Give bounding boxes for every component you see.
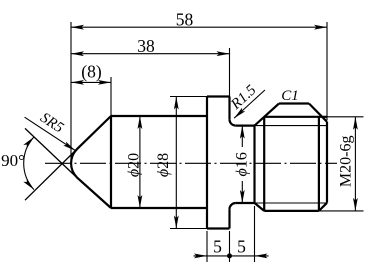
extension line left (tip tangent) <box>70 22 72 162</box>
dimension line phi16 upper <box>241 126 243 147</box>
arrow 58 left <box>71 25 84 30</box>
svg-text:5: 5 <box>237 237 246 257</box>
dimension line phi16 lower <box>241 181 243 203</box>
arrow 38 left <box>71 51 84 56</box>
svg-text:5: 5 <box>213 237 222 257</box>
cone edge lower (outline) <box>77 177 111 208</box>
arrow phi28 down <box>174 216 179 229</box>
cylinder phi20 top edge <box>111 115 207 117</box>
arrow SR5 <box>63 142 75 151</box>
cone edge upper construction line <box>25 148 79 201</box>
svg-text:ϕ20: ϕ20 <box>126 153 143 177</box>
extension line phi28 bottom <box>170 228 207 230</box>
arrow phi20 down <box>138 195 143 208</box>
arrow R1.5 <box>234 108 245 119</box>
flange phi28 top edge <box>207 95 230 97</box>
dimension line 38 <box>71 53 230 55</box>
svg-text:ϕ28: ϕ28 <box>155 153 172 177</box>
angle arc 90 <box>24 137 34 190</box>
leader line SR5 <box>25 117 76 150</box>
thread chamfer diagonal top-left <box>255 104 280 126</box>
arrow angle lower <box>23 178 34 189</box>
thread chamfer start line (right) <box>318 117 320 211</box>
svg-text:M20-6g: M20-6g <box>338 136 355 188</box>
arrow (8) left <box>71 80 84 85</box>
flange phi28 left face <box>206 97 208 229</box>
arrow phi20 up <box>138 116 143 129</box>
flange phi28 right face lower <box>228 209 230 228</box>
neck phi16 bottom edge <box>236 202 255 204</box>
thread major bottom line <box>264 210 319 212</box>
thread minor top line <box>255 125 328 127</box>
arrow phi16 down <box>240 190 245 203</box>
arrow phi16 up <box>240 126 245 139</box>
extension line right (58) <box>326 22 328 120</box>
spherical tip arc SR5 <box>71 149 77 177</box>
dimension line (8) <box>71 81 111 83</box>
thread chamfer diagonal bottom-left <box>255 203 265 211</box>
fillet R1.5 bottom <box>230 203 236 209</box>
dimension line 5-5 <box>194 255 269 257</box>
arrow angle upper <box>23 137 34 148</box>
arrow M20 down <box>353 198 358 211</box>
dot junction 5-5 <box>227 253 232 258</box>
wire centerline (axis) <box>45 162 337 164</box>
thread chamfer diagonal top-right <box>309 104 327 122</box>
arrow M20 up <box>353 117 358 130</box>
thread end line (left) <box>263 117 265 211</box>
cone edge upper (outline) <box>77 116 111 149</box>
thread right end face <box>326 122 328 203</box>
extension line M20 bottom <box>319 210 364 212</box>
extension line 5 right <box>254 206 256 262</box>
dimension line 58 <box>71 26 327 28</box>
svg-text:90°: 90° <box>1 151 25 170</box>
flange phi28 bottom edge <box>207 227 230 229</box>
svg-text:C1: C1 <box>281 88 299 104</box>
svg-text:58: 58 <box>176 9 194 29</box>
dimension line phi28 <box>175 97 177 229</box>
arrow 58 right <box>314 25 327 30</box>
flange phi28 right face upper <box>228 97 230 120</box>
neck right face <box>253 126 255 203</box>
leader line R1.5 <box>234 90 265 118</box>
svg-text:38: 38 <box>137 36 155 56</box>
cone base line <box>110 116 112 208</box>
extension line right (8) <box>110 77 112 116</box>
thread chamfer top flat <box>279 102 309 104</box>
dimension line M20-6g <box>354 117 356 211</box>
svg-text:(8): (8) <box>81 62 102 82</box>
arrow 5 left (outside) <box>194 254 207 259</box>
extension line phi28 top <box>170 96 207 98</box>
cylinder phi20 bottom edge <box>111 207 207 209</box>
extension line right (38) <box>229 48 231 97</box>
fillet R1.5 top <box>230 120 236 126</box>
arrow (8) right <box>98 80 111 85</box>
arrow 38 right <box>217 51 230 56</box>
extension line 5 middle <box>229 231 231 262</box>
arrow phi28 up <box>174 97 179 110</box>
svg-text:ϕ16: ϕ16 <box>234 152 251 176</box>
cone edge lower construction line <box>25 128 79 179</box>
arrow 5 right (outside) <box>255 254 268 259</box>
thread minor bottom line <box>255 202 328 204</box>
dimension line phi20 <box>139 116 141 208</box>
svg-text:SR5: SR5 <box>37 110 66 137</box>
thread major top line <box>264 116 327 118</box>
extension line M20 top <box>327 116 364 118</box>
thread chamfer diagonal bottom-right <box>319 203 327 211</box>
neck phi16 top edge <box>236 124 255 126</box>
extension line 5 left <box>206 231 208 262</box>
